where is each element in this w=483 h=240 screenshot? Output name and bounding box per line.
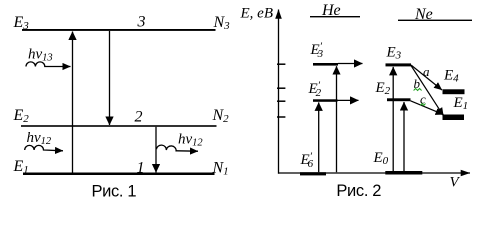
photon wavy arrow hv12 (emitted, right) — [157, 145, 199, 151]
level line E'2 (He) — [313, 99, 338, 102]
tick 3 — [277, 100, 285, 102]
svg-text:E′3: E′3 — [310, 41, 324, 61]
svg-text:N1: N1 — [212, 160, 229, 178]
svg-text:E′6: E′6 — [300, 151, 314, 171]
svg-text:3: 3 — [137, 14, 146, 31]
underline Ne — [398, 20, 472, 21]
svg-text:E4: E4 — [443, 68, 459, 85]
ground level Ne E0 — [385, 171, 422, 175]
svg-text:hν13: hν13 — [28, 47, 53, 64]
photon wavy arrow hv13 — [26, 62, 71, 67]
svg-text:Рис. 1: Рис. 1 — [92, 182, 137, 200]
svg-text:E2: E2 — [375, 80, 391, 97]
svg-text:V: V — [450, 175, 461, 191]
Ne excitation arrow to E3 — [392, 67, 394, 171]
svg-text:E2: E2 — [13, 107, 30, 125]
level line E3 (Ne) — [386, 63, 412, 66]
V axis (fig.2) — [279, 172, 471, 174]
energy transfer arrow E'3 to E3 — [338, 63, 363, 65]
level line E2 (Ne) — [387, 98, 411, 101]
svg-text:1: 1 — [137, 160, 145, 177]
svg-text:N2: N2 — [212, 107, 230, 125]
svg-text:E3: E3 — [13, 14, 30, 32]
svg-text:N3: N3 — [213, 14, 231, 32]
svg-text:a: a — [423, 64, 430, 79]
svg-text:E0: E0 — [373, 150, 389, 167]
pump arrow E1 to E3 — [72, 32, 74, 174]
svg-text:hν12: hν12 — [178, 132, 203, 149]
tick 2 — [277, 87, 285, 89]
tick 4 — [277, 116, 285, 118]
energy transfer arrow E'2 to E2 — [338, 99, 359, 101]
spellcheck zigzag under c — [420, 104, 425, 106]
decay arrow E3 to E2 — [109, 31, 111, 125]
level line E2 (fig.1) — [21, 125, 217, 127]
spellcheck zigzag under b — [414, 89, 422, 91]
photon wavy arrow hv12 (absorption, left) — [25, 145, 63, 150]
level line E1 (fig.1) — [23, 173, 215, 176]
He excitation arrow to E'2 — [318, 102, 320, 172]
tick 1 — [277, 63, 285, 65]
transition arrow b (E3 to E1) — [411, 66, 444, 116]
E axis (fig.2) — [278, 10, 280, 174]
level line E'3 (He) — [313, 63, 338, 66]
He excitation arrow to E'3 — [336, 66, 338, 172]
svg-text:E, eВ: E, eВ — [240, 6, 273, 22]
svg-text:E′2: E′2 — [308, 80, 322, 100]
svg-text:E3: E3 — [386, 45, 402, 62]
level line E1 (Ne) — [443, 115, 465, 121]
level line E4 (Ne) — [443, 89, 465, 94]
svg-text:Рис. 2: Рис. 2 — [336, 182, 381, 200]
svg-text:hν12: hν12 — [27, 130, 52, 147]
svg-text:2: 2 — [135, 109, 143, 126]
ground level He E'6 — [300, 172, 326, 175]
level line E3 (fig.1) — [22, 29, 216, 31]
svg-text:E1: E1 — [453, 95, 469, 112]
transition arrow a (E3 to E4) — [411, 65, 442, 90]
Ne excitation arrow to E2 — [403, 102, 405, 171]
emission arrow E2 to E1 — [155, 127, 157, 173]
transition arrow c (E2 to E1) — [411, 101, 444, 115]
svg-text:E1: E1 — [13, 158, 29, 176]
underline He — [310, 16, 360, 17]
